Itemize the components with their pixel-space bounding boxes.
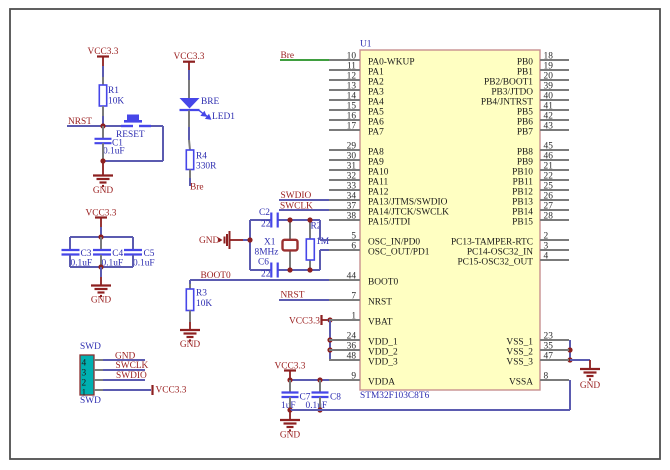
svg-text:VCC3.3: VCC3.3 bbox=[289, 317, 320, 327]
capacitor C7 bbox=[289, 380, 291, 392]
wire VSSA return bbox=[290, 409, 570, 411]
svg-text:PA10: PA10 bbox=[368, 168, 389, 178]
svg-text:35: 35 bbox=[544, 342, 554, 352]
ground (reset) bbox=[102, 161, 104, 175]
svg-text:PB12: PB12 bbox=[512, 188, 533, 198]
pin 14 (PA4) left bbox=[329, 92, 384, 108]
svg-text:C4: C4 bbox=[112, 249, 123, 259]
wire bbox=[103, 359, 145, 361]
wire bbox=[100, 218, 102, 228]
svg-text:32: 32 bbox=[347, 172, 357, 182]
pin 23 (VSS_1) right bbox=[506, 332, 569, 348]
svg-text:1: 1 bbox=[351, 312, 356, 322]
resistor R1 bbox=[99, 85, 106, 106]
pin 21 (PB10) right bbox=[512, 162, 569, 178]
svg-text:34: 34 bbox=[347, 192, 357, 202]
svg-text:PC13-TAMPER-RTC: PC13-TAMPER-RTC bbox=[451, 238, 533, 248]
resistor R2 1M bbox=[309, 220, 311, 239]
wire bbox=[189, 170, 191, 179]
LED arrows bbox=[199, 110, 210, 119]
svg-text:22: 22 bbox=[544, 172, 554, 182]
IC U1 body (STM32F103C8T6) bbox=[360, 50, 540, 390]
svg-text:40: 40 bbox=[544, 92, 554, 102]
svg-text:PC14-OSC32_IN: PC14-OSC32_IN bbox=[467, 248, 533, 258]
pin 27 (PB14) right bbox=[512, 202, 569, 218]
svg-text:PB2/BOOT1: PB2/BOOT1 bbox=[484, 78, 533, 88]
ground (VDDA) bbox=[289, 410, 291, 420]
node bbox=[327, 337, 332, 342]
ground (cap bank) bbox=[100, 267, 102, 277]
svg-text:2: 2 bbox=[82, 378, 87, 388]
svg-text:22: 22 bbox=[261, 270, 271, 280]
pin 44 (BOOT0) left bbox=[329, 272, 399, 288]
svg-text:PA15/JTDI: PA15/JTDI bbox=[368, 218, 410, 228]
svg-text:6: 6 bbox=[351, 242, 356, 252]
pin 31 (PA10) left bbox=[329, 162, 389, 178]
svg-text:PB4/JNTRST: PB4/JNTRST bbox=[481, 98, 533, 108]
svg-text:BOOT0: BOOT0 bbox=[368, 278, 399, 288]
svg-text:22: 22 bbox=[261, 220, 271, 230]
svg-text:42: 42 bbox=[544, 112, 554, 122]
pin 9 (VDDA) left bbox=[329, 372, 395, 388]
svg-text:VDD_3: VDD_3 bbox=[368, 358, 398, 368]
pin 12 (PA2) left bbox=[329, 72, 384, 88]
wire bbox=[103, 389, 151, 391]
push button RESET bbox=[121, 125, 133, 127]
pin 19 (PB1) right bbox=[517, 62, 569, 78]
pin 47 (VSS_3) right bbox=[506, 352, 569, 368]
svg-text:PA1: PA1 bbox=[368, 68, 384, 78]
wire NRST bbox=[279, 299, 330, 301]
pin 18 (PB0) right bbox=[517, 52, 569, 68]
crystal X1 8MHz bbox=[289, 220, 291, 239]
pin 4 (GND) bbox=[82, 358, 104, 368]
pin 16 (PA6) left bbox=[329, 112, 384, 128]
node bbox=[247, 237, 252, 242]
svg-text:VBAT: VBAT bbox=[368, 318, 393, 328]
svg-text:43: 43 bbox=[544, 122, 554, 132]
svg-text:45: 45 bbox=[544, 142, 554, 152]
svg-text:VDD_1: VDD_1 bbox=[368, 338, 398, 348]
svg-text:23: 23 bbox=[544, 332, 554, 342]
svg-text:VCC3.3: VCC3.3 bbox=[174, 52, 205, 62]
pin 22 (PB11) right bbox=[513, 172, 570, 188]
svg-text:37: 37 bbox=[347, 202, 357, 212]
connector SWD body bbox=[80, 355, 94, 395]
node C1/GND junction bbox=[100, 158, 105, 163]
svg-text:PA5: PA5 bbox=[368, 108, 384, 118]
pin 5 (OSC_IN/PD0) left bbox=[329, 232, 420, 248]
svg-text:GND: GND bbox=[93, 186, 114, 196]
svg-text:PA9: PA9 bbox=[368, 158, 384, 168]
wire crystal left bbox=[249, 220, 251, 270]
ground (VSS) bbox=[570, 359, 590, 361]
capacitor C4 bbox=[100, 237, 102, 250]
svg-text:C5: C5 bbox=[144, 249, 155, 259]
svg-text:0.1uF: 0.1uF bbox=[103, 147, 125, 157]
svg-text:C3: C3 bbox=[81, 249, 92, 259]
svg-text:20: 20 bbox=[544, 72, 554, 82]
wire VDD rail bbox=[329, 320, 331, 360]
svg-text:C2: C2 bbox=[259, 208, 270, 218]
svg-text:4: 4 bbox=[82, 358, 87, 368]
node bbox=[98, 234, 103, 239]
svg-text:25: 25 bbox=[544, 182, 554, 192]
svg-text:GND: GND bbox=[580, 381, 601, 391]
node bbox=[287, 217, 292, 222]
svg-text:29: 29 bbox=[347, 142, 357, 152]
svg-text:24: 24 bbox=[347, 332, 357, 342]
svg-text:LED1: LED1 bbox=[212, 112, 235, 122]
svg-text:18: 18 bbox=[544, 52, 554, 62]
node bbox=[327, 317, 332, 322]
svg-text:VSS_3: VSS_3 bbox=[506, 358, 533, 368]
pin 38 (PA15/JTDI) left bbox=[329, 212, 410, 228]
svg-text:VSS_1: VSS_1 bbox=[506, 338, 533, 348]
svg-text:VDD_2: VDD_2 bbox=[368, 348, 398, 358]
svg-text:36: 36 bbox=[347, 342, 357, 352]
svg-text:26: 26 bbox=[544, 192, 554, 202]
svg-text:STM32F103C8T6: STM32F103C8T6 bbox=[360, 391, 430, 401]
svg-text:14: 14 bbox=[347, 92, 357, 102]
pin 17 (PA7) left bbox=[329, 122, 384, 138]
wire bbox=[102, 57, 104, 67]
svg-text:33: 33 bbox=[347, 182, 357, 192]
svg-text:PA6: PA6 bbox=[368, 118, 384, 128]
svg-text:PB5: PB5 bbox=[517, 108, 533, 118]
svg-text:VCC3.3: VCC3.3 bbox=[156, 385, 187, 395]
pin 46 (PB9) right bbox=[517, 152, 569, 168]
wire SWDIO bbox=[279, 199, 330, 201]
pin 25 (PB12) right bbox=[512, 182, 569, 198]
wire to OSC_IN bbox=[319, 220, 321, 240]
svg-text:U1: U1 bbox=[360, 40, 372, 50]
svg-text:PB11: PB11 bbox=[513, 178, 534, 188]
pin 29 (PA8) left bbox=[329, 142, 384, 158]
svg-text:8: 8 bbox=[544, 372, 549, 382]
pin 48 (VDD_3) left bbox=[329, 352, 398, 368]
svg-text:GND: GND bbox=[91, 296, 112, 306]
node bbox=[287, 377, 292, 382]
capacitor C5 bbox=[132, 237, 134, 250]
svg-text:C8: C8 bbox=[330, 393, 341, 403]
svg-text:PC15-OSC32_OUT: PC15-OSC32_OUT bbox=[457, 258, 533, 268]
pin 2 (SWDIO) bbox=[82, 378, 104, 388]
svg-text:VSS_2: VSS_2 bbox=[506, 348, 533, 358]
svg-text:PA13/JTMS/SWDIO: PA13/JTMS/SWDIO bbox=[368, 198, 448, 208]
node bbox=[307, 217, 312, 222]
pin 15 (PA5) left bbox=[329, 102, 384, 118]
svg-text:SWD: SWD bbox=[80, 342, 101, 352]
svg-text:10K: 10K bbox=[108, 97, 124, 107]
svg-text:46: 46 bbox=[544, 152, 554, 162]
pin 7 (NRST) left bbox=[329, 292, 392, 308]
wire bbox=[188, 111, 190, 128]
svg-text:PB8: PB8 bbox=[517, 148, 533, 158]
pin 20 (PB2/BOOT1) right bbox=[484, 72, 569, 88]
svg-text:PA8: PA8 bbox=[368, 148, 384, 158]
wire NRST bbox=[67, 125, 121, 127]
pin 26 (PB13) right bbox=[512, 192, 569, 208]
svg-text:48: 48 bbox=[347, 352, 357, 362]
svg-text:PB15: PB15 bbox=[512, 218, 533, 228]
svg-text:Bre: Bre bbox=[190, 183, 204, 193]
svg-text:330R: 330R bbox=[196, 162, 217, 172]
svg-text:GND: GND bbox=[180, 340, 201, 350]
svg-text:NRST: NRST bbox=[368, 298, 392, 308]
pin 40 (PB4/JNTRST) right bbox=[481, 92, 569, 108]
pin 3 (SWCLK) bbox=[82, 368, 104, 378]
svg-text:5: 5 bbox=[351, 232, 356, 242]
svg-text:17: 17 bbox=[347, 122, 357, 132]
wire top rail bbox=[70, 236, 133, 238]
wire bbox=[103, 379, 145, 381]
wire to OSC_OUT bbox=[320, 249, 330, 251]
pin 1 (VBAT) left bbox=[329, 312, 393, 328]
svg-text:11: 11 bbox=[347, 62, 356, 72]
svg-text:OSC_OUT/PD1: OSC_OUT/PD1 bbox=[368, 248, 430, 258]
svg-text:R1: R1 bbox=[108, 86, 119, 96]
wire VSS rail bbox=[569, 340, 571, 360]
wire button return bbox=[151, 125, 163, 127]
svg-text:41: 41 bbox=[544, 102, 554, 112]
svg-text:SWD: SWD bbox=[80, 396, 101, 406]
ground (R3) bbox=[189, 311, 191, 323]
node bbox=[287, 407, 292, 412]
pin 13 (PA3) left bbox=[329, 82, 384, 98]
svg-text:PA0-WKUP: PA0-WKUP bbox=[368, 58, 415, 68]
node NRST junction bbox=[100, 123, 105, 128]
resistor R3 bbox=[189, 284, 191, 289]
capacitor C6 bbox=[270, 263, 272, 278]
svg-text:8MHz: 8MHz bbox=[255, 248, 279, 258]
pin 1 (VCC3.3) bbox=[82, 388, 104, 398]
svg-text:OSC_IN/PD0: OSC_IN/PD0 bbox=[368, 238, 420, 248]
svg-text:GND: GND bbox=[280, 431, 301, 441]
node bbox=[98, 264, 103, 269]
pin 6 (OSC_OUT/PD1) left bbox=[329, 242, 430, 258]
pin 30 (PA9) left bbox=[329, 152, 384, 168]
svg-text:21: 21 bbox=[544, 162, 554, 172]
svg-text:PA11: PA11 bbox=[368, 178, 388, 188]
wire SWCLK bbox=[279, 209, 330, 211]
svg-text:PA2: PA2 bbox=[368, 78, 384, 88]
svg-text:PA4: PA4 bbox=[368, 98, 384, 108]
svg-text:4: 4 bbox=[544, 252, 549, 262]
svg-text:47: 47 bbox=[544, 352, 554, 362]
svg-text:X1: X1 bbox=[264, 238, 276, 248]
svg-text:0.1uF: 0.1uF bbox=[133, 259, 155, 269]
svg-text:15: 15 bbox=[347, 102, 357, 112]
svg-text:7: 7 bbox=[351, 292, 356, 302]
svg-text:VSSA: VSSA bbox=[509, 378, 533, 388]
wire VDDA bbox=[290, 379, 330, 381]
power VCC3.3 (SWD pin1) bbox=[151, 385, 153, 395]
svg-text:38: 38 bbox=[347, 212, 357, 222]
wire bbox=[102, 106, 104, 116]
svg-text:13: 13 bbox=[347, 82, 357, 92]
svg-text:PB1: PB1 bbox=[517, 68, 533, 78]
pin 35 (VSS_2) right bbox=[506, 342, 569, 358]
pin 41 (PB5) right bbox=[517, 102, 569, 118]
wire bottom rail bbox=[70, 266, 133, 268]
wire bbox=[188, 62, 190, 70]
pin 37 (PA14/JTCK/SWCLK) left bbox=[329, 202, 449, 218]
pin 45 (PB8) right bbox=[517, 142, 569, 158]
svg-text:31: 31 bbox=[347, 162, 357, 172]
svg-text:PB7: PB7 bbox=[517, 128, 533, 138]
wire BOOT0 bbox=[190, 279, 330, 281]
pin 33 (PA12) left bbox=[329, 182, 389, 198]
pin 43 (PB7) right bbox=[517, 122, 569, 138]
wire Bre (green) bbox=[280, 59, 330, 61]
svg-text:VDDA: VDDA bbox=[368, 378, 395, 388]
svg-text:9: 9 bbox=[351, 372, 356, 382]
svg-text:10K: 10K bbox=[196, 299, 212, 309]
pin 34 (PA13/JTMS/SWDIO) left bbox=[329, 192, 448, 208]
svg-text:19: 19 bbox=[544, 62, 554, 72]
svg-text:PB9: PB9 bbox=[517, 158, 533, 168]
wire bbox=[103, 369, 145, 371]
svg-text:39: 39 bbox=[544, 82, 554, 92]
svg-text:PA3: PA3 bbox=[368, 88, 384, 98]
svg-text:1M: 1M bbox=[316, 237, 330, 247]
wire crystal top bbox=[250, 219, 271, 221]
pin 2 (PC13-TAMPER-RTC) right bbox=[451, 232, 569, 248]
svg-text:3: 3 bbox=[544, 242, 549, 252]
pin 28 (PB15) right bbox=[512, 212, 569, 228]
pin 42 (PB6) right bbox=[517, 112, 569, 128]
capacitor C1 bbox=[102, 126, 104, 138]
pin 3 (PC14-OSC32_IN) right bbox=[467, 242, 569, 258]
svg-text:28: 28 bbox=[544, 212, 554, 222]
pin 10 (PA0-WKUP) left bbox=[329, 52, 415, 68]
pin 36 (VDD_2) left bbox=[329, 342, 398, 358]
svg-text:12: 12 bbox=[347, 72, 357, 82]
svg-text:C6: C6 bbox=[258, 258, 269, 268]
capacitor C8 bbox=[319, 380, 321, 392]
svg-text:27: 27 bbox=[544, 202, 554, 212]
svg-text:PB0: PB0 bbox=[517, 58, 533, 68]
pin 8 (VSSA) right bbox=[509, 372, 569, 388]
capacitor C3 bbox=[69, 237, 71, 250]
svg-text:16: 16 bbox=[347, 112, 357, 122]
svg-text:3: 3 bbox=[82, 368, 87, 378]
capacitor C2 bbox=[270, 213, 272, 228]
svg-text:10: 10 bbox=[347, 52, 357, 62]
pin 32 (PA11) left bbox=[329, 172, 388, 188]
svg-text:R4: R4 bbox=[196, 152, 207, 162]
svg-text:PA14/JTCK/SWCLK: PA14/JTCK/SWCLK bbox=[368, 208, 449, 218]
svg-text:GND: GND bbox=[199, 236, 220, 246]
svg-text:30: 30 bbox=[347, 152, 357, 162]
svg-text:PB3/JTDO: PB3/JTDO bbox=[491, 88, 533, 98]
svg-text:PA7: PA7 bbox=[368, 128, 384, 138]
svg-text:PB14: PB14 bbox=[512, 208, 533, 218]
svg-text:PB10: PB10 bbox=[512, 168, 533, 178]
wire crystal bottom bbox=[250, 269, 271, 271]
svg-text:44: 44 bbox=[347, 272, 357, 282]
pin 24 (VDD_1) left bbox=[329, 332, 398, 348]
svg-text:PB13: PB13 bbox=[512, 198, 533, 208]
svg-text:PB6: PB6 bbox=[517, 118, 533, 128]
LED LED1 (BRE) bbox=[180, 98, 200, 109]
svg-text:2: 2 bbox=[544, 232, 549, 242]
pin 39 (PB3/JTDO) right bbox=[491, 82, 569, 98]
svg-text:R3: R3 bbox=[196, 289, 207, 299]
pin 11 (PA1) left bbox=[329, 62, 384, 78]
resistor R4 bbox=[186, 150, 193, 170]
svg-text:PA12: PA12 bbox=[368, 188, 389, 198]
pin 4 (PC15-OSC32_OUT) right bbox=[457, 252, 569, 268]
svg-text:BRE: BRE bbox=[201, 97, 220, 107]
node bbox=[567, 347, 572, 352]
